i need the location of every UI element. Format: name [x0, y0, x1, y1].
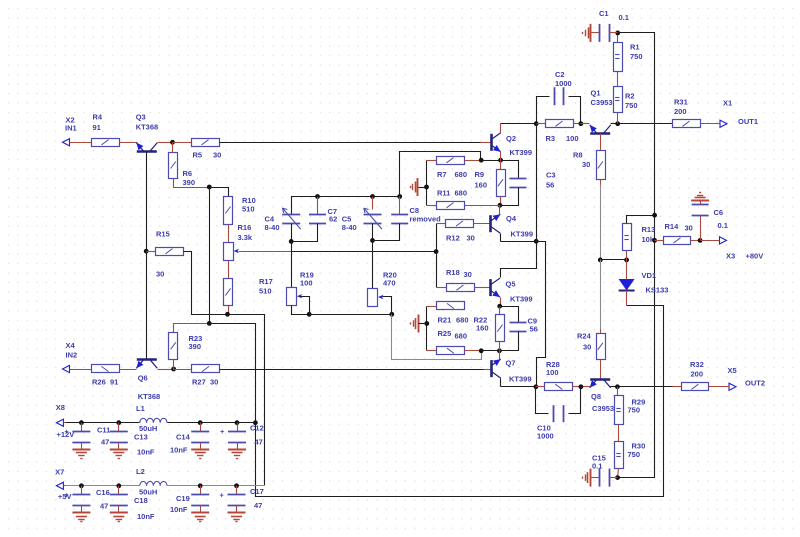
- wire C4 bottom: [291, 224, 293, 242]
- capacitor C16: [64, 486, 109, 513]
- svg-text:R8: R8: [573, 151, 583, 160]
- svg-text:R31: R31: [674, 98, 688, 107]
- ground: [72, 450, 90, 459]
- wire ground to C1: [592, 32, 600, 34]
- svg-text:Q1: Q1: [591, 89, 601, 98]
- svg-text:30: 30: [210, 378, 218, 387]
- node R25 right / wiper net: [479, 348, 484, 353]
- capacitor C6: [692, 205, 728, 231]
- wire R20 wiper: [383, 297, 392, 315]
- svg-text:3.3k: 3.3k: [238, 233, 253, 242]
- wire R4 to Q3 emitter: [120, 142, 138, 144]
- resistor R17: [224, 277, 273, 306]
- wire C10 left loop: [536, 387, 549, 414]
- wire R16 wiper to R12/R18 node: [292, 251, 437, 253]
- svg-text:IN2: IN2: [66, 351, 78, 360]
- svg-text:0.1: 0.1: [619, 13, 629, 22]
- svg-text:IN1: IN1: [65, 124, 77, 133]
- resistor R29: [615, 396, 646, 425]
- connector X1: [719, 120, 728, 127]
- svg-text:1000: 1000: [555, 79, 572, 88]
- wire node to R32: [618, 386, 673, 388]
- svg-text:47: 47: [254, 501, 262, 510]
- wire node to R9: [500, 161, 502, 170]
- wire R23 top to node: [174, 324, 210, 333]
- resistor R26: [92, 365, 120, 387]
- transistor Q7: [491, 359, 531, 384]
- wire Q2 collector up: [500, 124, 502, 133]
- svg-text:R11: R11: [437, 189, 450, 198]
- wire node to R22: [499, 307, 501, 315]
- svg-text:R15: R15: [156, 230, 170, 239]
- node C18 tap: [116, 483, 121, 488]
- connector X5: [728, 383, 737, 390]
- capacitor C19: [170, 486, 209, 514]
- node R6 / R10 / +12V line: [207, 185, 212, 190]
- node R3 right / Q1 emitter: [579, 121, 584, 126]
- wire R21/R25 left column: [426, 307, 428, 351]
- svg-text:390: 390: [183, 178, 196, 187]
- svg-text:R13: R13: [642, 225, 656, 234]
- svg-text:KT399: KT399: [511, 230, 534, 239]
- svg-text:10nF: 10nF: [137, 448, 155, 457]
- svg-text:30: 30: [464, 270, 472, 279]
- node R13 / +80V line: [652, 213, 657, 218]
- ground: [110, 513, 128, 522]
- svg-text:C6: C6: [714, 208, 724, 217]
- node R20 wiper net: [389, 312, 394, 317]
- wire R6 to node: [174, 179, 210, 188]
- svg-text:R6: R6: [183, 169, 193, 178]
- node Q4/Q5 collectors: [534, 239, 539, 244]
- svg-text:200: 200: [674, 107, 687, 116]
- resistor R2: [614, 87, 638, 113]
- wire R2 to R1: [617, 72, 619, 87]
- wire to R18: [437, 287, 447, 289]
- wire C7 bottom: [292, 224, 318, 242]
- node C11 tap: [79, 420, 84, 425]
- wire R19 wiper: [301, 297, 310, 315]
- svg-text:+80V: +80V: [746, 252, 764, 261]
- wire C2 left loop: [537, 97, 550, 124]
- ground: [191, 513, 209, 522]
- wire R16 wiper: [239, 251, 292, 253]
- wire Q7 collector down: [500, 379, 502, 387]
- node R17 bottom / +5V line: [225, 312, 230, 317]
- svg-text:KT399: KT399: [509, 375, 532, 384]
- svg-text:+: +: [220, 427, 225, 436]
- resistor R21: [437, 302, 489, 333]
- node C1 / R1 / +80V line: [615, 31, 620, 36]
- svg-text:C17: C17: [250, 487, 264, 496]
- ground: [191, 450, 209, 459]
- wire column to R25: [427, 350, 437, 352]
- resistor R6: [169, 153, 196, 188]
- connector X3: [718, 237, 727, 244]
- wire to Q7 base: [484, 369, 492, 371]
- svg-text:30: 30: [685, 224, 693, 233]
- svg-text:+: +: [64, 427, 69, 436]
- wire node to R19: [291, 242, 293, 288]
- svg-text:750: 750: [625, 101, 638, 110]
- wire top node: [318, 196, 373, 198]
- svg-text:R21: R21: [438, 316, 452, 325]
- svg-text:X3: X3: [726, 252, 735, 261]
- wire R13 top to +80V line: [627, 216, 655, 224]
- svg-text:750: 750: [630, 52, 643, 61]
- svg-text:56: 56: [530, 325, 538, 334]
- svg-text:8-40: 8-40: [342, 223, 357, 232]
- diode VD1: [619, 271, 669, 295]
- wire column to R21: [427, 306, 437, 308]
- wire R29 to R30: [618, 425, 620, 442]
- wire node to C6: [700, 216, 702, 241]
- wire C5 top stub: [372, 197, 374, 210]
- node R28 right / Q8 emitter: [579, 384, 584, 389]
- wire C8 bottom: [373, 224, 400, 241]
- svg-text:160: 160: [475, 181, 488, 190]
- wire Q4 emitter up: [499, 206, 501, 215]
- svg-text:47: 47: [255, 438, 263, 447]
- svg-text:C12: C12: [250, 424, 264, 433]
- wire node to R2: [617, 113, 619, 124]
- svg-text:680: 680: [456, 316, 469, 325]
- node C4/C7 bottom / R19: [289, 239, 294, 244]
- wire node to R3: [537, 123, 546, 125]
- svg-text:+: +: [64, 490, 69, 499]
- wire node to R10: [210, 188, 229, 197]
- node R30 / C15 / +80V line: [615, 475, 620, 480]
- capacitor C18: [110, 486, 155, 521]
- svg-text:C2: C2: [555, 70, 565, 79]
- node R8/R24 mid: [598, 258, 603, 263]
- wire Q1 base to R8: [600, 134, 602, 151]
- resistor R27: [192, 365, 220, 387]
- node X3 +80V labels: [726, 252, 763, 261]
- svg-text:0.1: 0.1: [718, 221, 728, 230]
- svg-text:R17: R17: [259, 277, 273, 286]
- node C5 top: [370, 194, 375, 199]
- svg-text:8-40: 8-40: [265, 223, 280, 232]
- ground: [411, 315, 419, 333]
- wire Q2 emitter down: [500, 152, 502, 161]
- wire R10 to R16: [228, 225, 230, 243]
- wire C5 bottom: [372, 224, 374, 241]
- svg-text:R26: R26: [92, 378, 106, 387]
- wire ground stub: [419, 323, 427, 325]
- svg-text:30: 30: [156, 270, 164, 279]
- connector X4: [63, 365, 72, 372]
- wire C10 right loop: [569, 387, 581, 414]
- node C16 tap: [79, 483, 84, 488]
- wire node to Q1 emitter: [581, 123, 590, 125]
- wire column to R7: [427, 160, 437, 162]
- svg-text:KT368: KT368: [136, 123, 159, 132]
- svg-text:X7: X7: [55, 468, 64, 477]
- resistor R5: [192, 139, 222, 160]
- svg-text:X8: X8: [56, 403, 65, 412]
- wire node to R31: [618, 123, 673, 125]
- svg-text:C3: C3: [546, 171, 556, 180]
- resistor R24: [577, 332, 606, 360]
- svg-text:30: 30: [213, 151, 221, 160]
- svg-text:R5: R5: [193, 151, 203, 160]
- wire node up to R12: [436, 224, 438, 252]
- node Q6 collector / R23 / R27: [171, 367, 176, 372]
- wire node to R28: [536, 386, 545, 388]
- wire R26 to Q6 emitter: [120, 369, 137, 371]
- svg-text:R3: R3: [546, 134, 556, 143]
- wire R19 bottom: [292, 306, 310, 315]
- wire +12V line to VD cathode: [210, 306, 664, 497]
- wire to C9 top: [500, 307, 519, 323]
- resistor R11: [437, 189, 468, 210]
- resistor R9: [497, 170, 506, 197]
- wire to C3 top: [501, 161, 519, 179]
- wire node to R5: [173, 142, 192, 144]
- wire C3 bottom to node: [500, 188, 519, 206]
- node R3 left / C2 / Q2 collector: [534, 121, 539, 126]
- svg-text:680: 680: [455, 170, 468, 179]
- node X2 IN1 labels: [65, 116, 77, 133]
- node Q3 collector / R5 / R6: [170, 140, 175, 145]
- svg-text:Q4: Q4: [506, 214, 517, 223]
- svg-text:Q5: Q5: [506, 280, 516, 289]
- variable capacitor C4: [265, 208, 301, 232]
- wire node to VD anode: [626, 260, 628, 280]
- transistor Q1: [590, 89, 613, 134]
- wire R5 to Q2 base: [220, 142, 481, 144]
- transistor Q5: [491, 278, 533, 303]
- svg-text:680: 680: [455, 189, 468, 198]
- wire base node to R15: [147, 251, 156, 253]
- node C8 top / ground feed: [397, 194, 402, 199]
- svg-text:390: 390: [189, 342, 202, 351]
- wire Q1 collector to node: [611, 123, 618, 125]
- resistor R25: [437, 329, 468, 355]
- svg-text:R25: R25: [438, 329, 452, 338]
- capacitor C17: [220, 486, 264, 513]
- svg-text:X5: X5: [728, 366, 737, 375]
- wire R11 to node: [465, 205, 500, 207]
- svg-text:750: 750: [628, 406, 641, 415]
- wire column to R11: [427, 205, 437, 207]
- svg-text:R32: R32: [690, 360, 704, 369]
- wire R8 bottom: [600, 180, 602, 185]
- node C13 tap: [116, 420, 121, 425]
- wire Q4 collector down: [500, 234, 502, 242]
- resistor R10: [224, 196, 256, 225]
- node Q5 emitter / R22 / C9: [497, 304, 502, 309]
- svg-text:R9: R9: [475, 170, 485, 179]
- wire R32 to X5: [709, 386, 730, 388]
- capacitor C7: [309, 207, 337, 224]
- wire Q5 emitter down: [500, 298, 502, 307]
- wire wiper net to R25 right node: [392, 315, 482, 360]
- svg-text:47: 47: [100, 502, 108, 511]
- svg-text:KT399: KT399: [510, 148, 533, 157]
- wire R9 to node: [500, 197, 502, 206]
- node R9/R11/C3/Q4 emitter: [498, 203, 503, 208]
- svg-text:R1: R1: [630, 43, 640, 52]
- svg-text:KT399: KT399: [510, 295, 533, 304]
- node Q1 collector / R2 / OUT1: [615, 121, 620, 126]
- wire C8 top stub: [399, 197, 401, 215]
- wire ground stub: [419, 187, 427, 189]
- ground: [228, 513, 246, 522]
- svg-text:KT368: KT368: [138, 392, 161, 401]
- wire +5V rail: [66, 485, 140, 487]
- trimmer resistor R16: [224, 223, 253, 261]
- node Q2 emitter / R9 / C3: [498, 158, 503, 163]
- svg-text:100: 100: [566, 134, 579, 143]
- svg-text:R2: R2: [625, 92, 635, 101]
- ground: [110, 450, 128, 459]
- wire IN1 to R4: [72, 142, 92, 144]
- resistor R8: [573, 151, 606, 180]
- resistor R31: [673, 98, 701, 128]
- svg-text:C18: C18: [134, 496, 148, 505]
- svg-text:47: 47: [101, 438, 109, 447]
- wire R25 to node: [465, 350, 482, 352]
- node C7 top: [315, 194, 320, 199]
- svg-text:470: 470: [383, 279, 396, 288]
- wire R12 to Q4 base: [474, 223, 492, 225]
- wire node to R20: [372, 241, 374, 289]
- wire IN2 to R26: [72, 369, 92, 371]
- svg-text:VD1: VD1: [642, 271, 657, 280]
- wire C6 to ground: [700, 200, 702, 205]
- connector X7: [56, 482, 65, 489]
- svg-text:56: 56: [546, 181, 554, 190]
- wire Q2 collector to node: [501, 123, 537, 125]
- svg-text:C13: C13: [134, 433, 148, 442]
- svg-text:C3953: C3953: [591, 98, 613, 107]
- wire to Q2 emitter node: [482, 160, 501, 162]
- svg-text:0.1: 0.1: [592, 462, 602, 471]
- wire R24 to Q8 base: [600, 360, 602, 380]
- wire R3 to node: [574, 123, 581, 125]
- node R12/R18 feed: [434, 249, 439, 254]
- svg-text:100: 100: [300, 279, 313, 288]
- svg-text:R18: R18: [446, 268, 460, 277]
- svg-text:750: 750: [628, 450, 641, 459]
- capacitor C11: [64, 423, 110, 450]
- capacitor C9: [510, 317, 538, 334]
- wire Q8 collector to node: [611, 386, 618, 388]
- inductor L2: [136, 467, 167, 497]
- wire R17 bottom: [228, 306, 230, 315]
- ground: [691, 193, 709, 201]
- node base line / R15: [144, 249, 149, 254]
- svg-text:Q8: Q8: [591, 392, 601, 401]
- resistor R18: [446, 268, 475, 292]
- node R13 bottom / VD anode: [624, 258, 629, 263]
- svg-text:C14: C14: [176, 433, 191, 442]
- wire +12V rail right: [168, 422, 256, 424]
- node R28 left / C10 / Q7 collector: [534, 384, 539, 389]
- capacitor C14: [170, 423, 209, 455]
- capacitor C15: [592, 454, 610, 487]
- resistor R23: [169, 333, 203, 360]
- svg-text:removed: removed: [410, 215, 442, 224]
- wire to R32: [673, 386, 682, 388]
- wire R14 to node: [691, 240, 701, 242]
- svg-text:510: 510: [242, 205, 255, 214]
- wire top node right: [373, 196, 400, 198]
- svg-text:X4: X4: [66, 341, 76, 350]
- svg-text:C3953: C3953: [592, 404, 614, 413]
- wire node to R27: [174, 369, 192, 371]
- svg-text:30: 30: [467, 234, 475, 243]
- wire C2 right loop: [569, 97, 581, 124]
- wire ground to C15: [592, 477, 600, 479]
- capacitor C8: [391, 206, 441, 224]
- connector X2: [63, 139, 72, 146]
- wire Q3 collector to node: [158, 142, 173, 144]
- wire down to mid node: [600, 185, 602, 260]
- transistor Q8: [590, 379, 614, 413]
- wire to Q7 emitter node: [482, 350, 500, 352]
- svg-text:Q2: Q2: [506, 134, 516, 143]
- transistor Q4: [491, 214, 534, 239]
- wire to Q2 base: [481, 142, 492, 144]
- node Q8 collector / R29 / OUT2: [615, 384, 620, 389]
- ground: [72, 513, 90, 522]
- wire to R24: [600, 330, 602, 334]
- svg-text:30: 30: [582, 160, 590, 169]
- svg-text:200: 200: [691, 370, 704, 379]
- node R14 / +80V line: [652, 238, 657, 243]
- svg-text:91: 91: [110, 378, 118, 387]
- wire R16 to R17: [228, 261, 230, 279]
- svg-text:10nF: 10nF: [137, 512, 155, 521]
- resistor R7: [437, 157, 488, 190]
- wire to +5V rail: [228, 315, 265, 486]
- resistor R4: [92, 113, 120, 147]
- resistor R13: [623, 224, 656, 251]
- svg-text:R14: R14: [665, 222, 680, 231]
- wire down to R28 node: [537, 242, 546, 387]
- node C5/C8 bottom / R20: [370, 238, 375, 243]
- wire node to Q8 emitter: [581, 386, 591, 388]
- wire +80V line: [618, 33, 655, 478]
- resistor R15: [156, 230, 184, 279]
- wire R22 to node: [499, 342, 501, 351]
- node R14 / C6 / X3: [698, 238, 703, 243]
- wire R1 to node: [617, 33, 619, 43]
- svg-text:Q7: Q7: [506, 359, 516, 368]
- svg-text:510: 510: [259, 287, 272, 296]
- wire wiper net: [310, 314, 392, 316]
- wire Q6 collector to node: [158, 369, 174, 371]
- svg-text:R16: R16: [238, 223, 252, 232]
- svg-text:X1: X1: [723, 99, 732, 108]
- wire +12V rail: [66, 422, 140, 424]
- wire Q7 emitter up: [499, 351, 501, 360]
- capacitor C3: [510, 171, 556, 190]
- wire R28 to node: [573, 386, 581, 388]
- resistor R22: [496, 315, 505, 342]
- wire Q5 collector jog: [501, 242, 537, 278]
- transistor Q3: [136, 113, 159, 152]
- ground: [228, 450, 246, 459]
- node +12V rail: [253, 420, 258, 425]
- node X5 OUT2 labels: [728, 366, 766, 388]
- node C17 tap: [234, 483, 239, 488]
- svg-text:C11: C11: [97, 426, 110, 435]
- wire R23 bottom to node: [173, 360, 175, 370]
